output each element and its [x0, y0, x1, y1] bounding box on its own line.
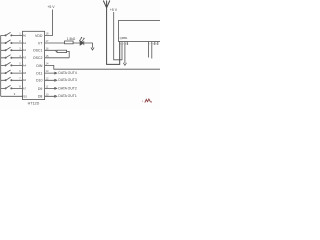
svg-text:+5 V: +5 V — [47, 5, 55, 9]
svg-text:D9: D9 — [38, 87, 43, 91]
svg-text:A2: A2 — [23, 48, 27, 52]
svg-text:A4: A4 — [23, 63, 27, 67]
svg-text:A3: A3 — [23, 56, 27, 60]
svg-text:OSC1: OSC1 — [33, 49, 43, 53]
svg-text:QMB1: QMB1 — [120, 36, 128, 40]
svg-text:A7: A7 — [23, 86, 27, 90]
svg-text:HT12D: HT12D — [28, 102, 40, 106]
svg-text:+5 V: +5 V — [110, 8, 118, 12]
svg-text:DATA OUT2: DATA OUT2 — [58, 86, 76, 90]
svg-text:A0: A0 — [23, 33, 27, 37]
svg-text:DIN: DIN — [36, 64, 43, 68]
svg-text:A5: A5 — [23, 71, 27, 75]
svg-text:DATA OUT4: DATA OUT4 — [58, 71, 76, 75]
svg-text:OSC2: OSC2 — [33, 56, 43, 60]
svg-text:DATA OUT3: DATA OUT3 — [58, 78, 76, 82]
svg-text:DATA OUT1: DATA OUT1 — [58, 94, 76, 98]
svg-text:D8: D8 — [38, 95, 43, 99]
svg-text:VSS: VSS — [22, 94, 27, 98]
svg-text:D10: D10 — [36, 79, 42, 83]
svg-text:D11: D11 — [36, 72, 42, 76]
svg-text:1.5kΩ: 1.5kΩ — [67, 37, 76, 41]
svg-text:VDD: VDD — [35, 34, 43, 38]
svg-text:A6: A6 — [23, 78, 27, 82]
svg-text:A1: A1 — [23, 41, 27, 45]
